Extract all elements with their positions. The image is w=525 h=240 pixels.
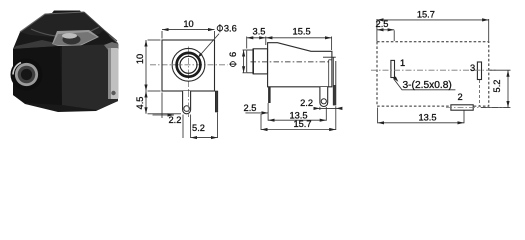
centerline over lug	[188, 91, 190, 117]
metal insert	[52, 30, 99, 46]
leader phi3.6	[198, 34, 219, 58]
dim 5.2 bottom	[182, 115, 184, 139]
leader 3-(2.5x0.8)	[393, 79, 455, 90]
top collar face	[20, 12, 104, 38]
svg-text:2: 2	[458, 92, 463, 102]
dim 2.5	[393, 30, 395, 41]
pin 3 dashed ext	[479, 80, 481, 106]
svg-text:3: 3	[470, 63, 475, 73]
front face	[13, 46, 62, 105]
svg-text:2.2: 2.2	[300, 98, 313, 108]
svg-text:3.6: 3.6	[224, 24, 237, 34]
centerline barrel	[251, 61, 329, 63]
pin 2	[451, 105, 473, 110]
svg-text:10: 10	[135, 54, 145, 64]
svg-text:13.5: 13.5	[418, 113, 436, 123]
dashed body rect	[377, 42, 489, 106]
right pin bar	[215, 91, 218, 112]
svg-text:5.2: 5.2	[492, 80, 502, 93]
pin 3	[477, 62, 481, 80]
pin 1	[391, 60, 395, 77]
inner ring outer	[177, 53, 201, 77]
svg-text:2.5: 2.5	[376, 19, 389, 29]
outer circle	[172, 48, 205, 81]
barrel ferrule	[11, 59, 43, 91]
dim phi6	[243, 49, 247, 51]
svg-text:10: 10	[183, 19, 193, 29]
dim 4.5 left	[148, 113, 182, 115]
centerline horizontal	[371, 69, 497, 71]
metal lug strip	[104, 42, 119, 50]
svg-text:4.5: 4.5	[135, 97, 145, 110]
barrel tip	[247, 50, 254, 73]
svg-text:5.2: 5.2	[192, 123, 205, 133]
right face	[62, 44, 118, 110]
pin2 centerline	[446, 107, 511, 109]
body	[268, 43, 332, 87]
dim 13.5 bottom	[377, 108, 379, 124]
svg-text:15.7: 15.7	[293, 119, 311, 129]
right pin plate	[328, 60, 330, 87]
barrel main	[253, 49, 267, 74]
svg-text:6: 6	[228, 52, 238, 57]
body square	[162, 40, 215, 91]
dim 10 left	[148, 39, 161, 41]
dim 15.7	[260, 114, 262, 130]
svg-text:1: 1	[400, 58, 405, 68]
dim 15.7 top	[376, 19, 378, 41]
dim 10 top	[161, 31, 163, 39]
svg-text:15.7: 15.7	[417, 9, 435, 19]
inner ring inner	[180, 56, 197, 73]
pin 1	[268, 87, 271, 103]
svg-text:3.5: 3.5	[253, 27, 266, 37]
dim 2.2 bottom	[161, 93, 163, 119]
phi 6 rotated	[228, 52, 238, 67]
phi 3.6	[217, 24, 222, 32]
svg-text:2.2: 2.2	[169, 115, 182, 125]
dim 5.2 right	[490, 69, 511, 71]
lug	[320, 87, 328, 107]
centerline horizontal	[150, 64, 228, 66]
svg-text:3-(2.5x0.8): 3-(2.5x0.8)	[403, 80, 452, 91]
bottom lug	[183, 91, 191, 114]
svg-text:2.5: 2.5	[244, 103, 257, 113]
svg-text:15.5: 15.5	[293, 27, 311, 37]
dim 13.5	[267, 113, 269, 120]
dim 3.5 / 15.5 top	[246, 37, 248, 49]
dim 2.5 bottom	[267, 103, 269, 113]
connector body silhouette	[13, 11, 118, 113]
dim 2.2 right	[319, 107, 321, 110]
centerline vertical	[188, 47, 190, 118]
ledge right	[323, 56, 336, 58]
